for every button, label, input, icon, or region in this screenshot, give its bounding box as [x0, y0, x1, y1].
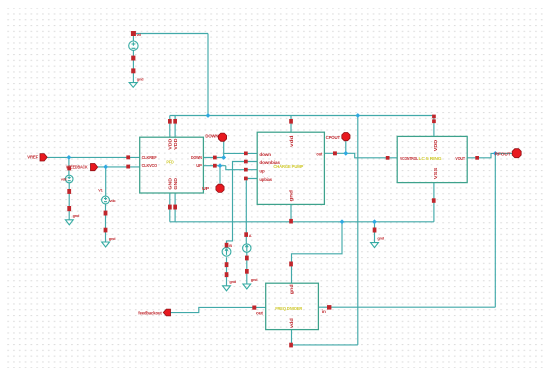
svg-text:gnd: gnd [137, 76, 144, 81]
wire PFD DOWN output [203, 157, 223, 159]
label PFD VDD rotated left [167, 138, 172, 150]
svg-text:gnd: gnd [109, 236, 116, 241]
pin square VCO VSS [432, 198, 436, 203]
junction node VDD corner x=208 [206, 113, 211, 118]
ground symbol below VREF source [65, 220, 73, 225]
svg-text:DOWN: DOWN [205, 134, 219, 139]
wire down to charge pump input y=153.4 [224, 152, 258, 154]
label VFEEDBACK [66, 165, 88, 170]
label CP gnd rotated [289, 190, 294, 202]
pin square VREF gnd [67, 206, 71, 211]
label divider in [322, 309, 326, 314]
ground symbol below VFEEDBACK source [102, 242, 110, 247]
svg-text:LC 5 RING: LC 5 RING [419, 156, 443, 161]
label divider out [256, 311, 263, 316]
wire UP pin stub vertical [219, 166, 221, 184]
label CPOUT pin [326, 135, 341, 140]
label CHARGE PUMP cell name [273, 164, 303, 169]
pin square PFD DOWN [213, 156, 217, 160]
svg-text:A: A [249, 233, 252, 238]
svg-text:VOUT: VOUT [455, 156, 465, 161]
pin square divider vdd bottom [289, 343, 293, 348]
wire VDD rail horizontal y=115.5 [170, 115, 434, 117]
label divider gnd rotated top [289, 284, 294, 294]
label PFD GND rotated left [167, 177, 172, 189]
pin square CP down [244, 152, 248, 156]
pin square VCO VCONTROL [386, 156, 390, 160]
label gnd below VFEEDBACK source [109, 236, 116, 241]
svg-text:CPOUT: CPOUT [326, 135, 341, 140]
pin square VCO VDD lower [432, 119, 436, 123]
label gnd below upbias source [251, 277, 258, 282]
svg-text:vdc: vdc [61, 177, 68, 182]
pin square VREF source plus [67, 166, 71, 170]
pin VFEEDBACK input arrow [91, 164, 98, 171]
pin square divider in [327, 305, 331, 310]
junction node CPOUT [343, 151, 348, 156]
pin square VFEEDBACK source minus [104, 211, 108, 216]
pin square PFD GND right [173, 205, 177, 210]
label PFD UP inside [196, 163, 202, 168]
wire VCO VSS to gnd rail [433, 183, 435, 222]
junction node RFOUT tap [493, 151, 498, 156]
svg-text:VREF: VREF [27, 154, 38, 159]
wire charge-pump out to CPOUT node [324, 152, 345, 154]
label CP upbias [259, 177, 272, 182]
pin square VCO VOUT [475, 156, 479, 160]
label VCONTROL [400, 156, 418, 161]
label VCO VSS rotated [433, 168, 438, 180]
wire gnd symbol drop at x=374.5 [374, 222, 376, 243]
pin square VCO VDD upper [432, 115, 436, 119]
label FREQ DIVIDER cell name [275, 306, 303, 311]
label divider vdd rotated bottom [289, 318, 294, 328]
svg-text:RFOUT: RFOUT [495, 151, 511, 156]
label CP down [259, 152, 271, 157]
ground symbol below V0 [129, 83, 137, 88]
label UP pin [202, 186, 209, 191]
svg-text:GND: GND [173, 177, 178, 189]
pin square downbias gnd [225, 272, 229, 277]
svg-text:GND: GND [167, 177, 172, 189]
svg-text:gnd: gnd [229, 279, 236, 284]
wire VREF net horizontal [47, 156, 140, 158]
wire PFD UP output [203, 165, 225, 167]
svg-text:down: down [259, 152, 271, 157]
label PFD VDD rotated right [173, 138, 178, 150]
wire charge-pump gnd stub [290, 204, 292, 221]
label gnd at rail drop [377, 235, 384, 240]
wire VOUT vertical feedback x=495.3 [494, 153, 496, 307]
label VCO VDD rotated [433, 139, 438, 151]
wire downbias net [227, 162, 258, 286]
wire charge-pump vdd stub [290, 116, 292, 133]
label PFD cell name [166, 159, 174, 164]
wire VDD vertical drop at x=208 [207, 34, 209, 116]
label CP up [259, 168, 264, 173]
label DOWN pin [205, 134, 219, 139]
svg-text:gnd: gnd [251, 277, 258, 282]
pin square VFEEDBACK gnd [104, 228, 108, 233]
pin square PFD VDD left [168, 119, 172, 124]
pin square PFD GND left [168, 205, 172, 210]
junction node VREF tap [66, 155, 71, 160]
svg-text:CLKREF: CLKREF [142, 155, 157, 160]
pin square upbias source minus [245, 256, 249, 261]
pin square V0 plus terminal [131, 31, 136, 36]
voltage source on VFEEDBACK net [102, 196, 110, 204]
label LC 5 RING cell name [419, 156, 443, 161]
svg-text:VDD: VDD [167, 138, 172, 150]
label PFD CLKREF [142, 155, 157, 160]
current source downbias [222, 247, 231, 256]
label PFD GND rotated right [173, 177, 178, 189]
svg-text:CHARGE PUMP: CHARGE PUMP [273, 164, 303, 169]
wire PFD VDD pin stubs [170, 116, 175, 138]
junction node gnd rail divider tap [340, 219, 345, 224]
pin RFOUT octagon [512, 149, 521, 158]
block FREQ DIVIDER box [266, 283, 319, 329]
label V1 designator [98, 187, 103, 192]
wire VREF source drop [68, 157, 70, 219]
wire feedbackout net [171, 307, 266, 312]
svg-text:B: B [229, 243, 232, 248]
pin square divider out [252, 306, 256, 310]
svg-text:FREQ DIVIDER: FREQ DIVIDER [275, 306, 303, 311]
label gnd below VREF source [73, 213, 80, 218]
wire VDD long vertical to divider x=357.8 [357, 116, 359, 345]
junction node DOWN [221, 155, 226, 160]
label CP out [316, 152, 322, 157]
svg-text:up: up [259, 168, 264, 173]
label PFD DOWN inside [191, 155, 202, 160]
pin square CP gnd [289, 219, 293, 224]
label vdc VFEEDBACK source [109, 198, 116, 203]
pin feedbackout arrow [163, 309, 170, 316]
pin square CP upbias [244, 177, 248, 181]
label VOUT [455, 156, 465, 161]
pin DOWN octagon [218, 133, 226, 141]
svg-text:gnd: gnd [289, 190, 294, 202]
junction node gnd rail symbol tap [372, 219, 377, 224]
current source upbias [243, 244, 251, 252]
wire PFD GND pin stubs [170, 193, 175, 222]
wire divider vdd bottom to x=357.8 [292, 330, 358, 345]
label RFOUT pin [495, 151, 511, 156]
wire up jog to charge pump input y=169.7 [226, 166, 257, 170]
junction node VFEEDBACK tap [103, 164, 108, 169]
pin square CP up [244, 168, 248, 172]
label VREF [27, 154, 38, 159]
ground symbol below downbias source [223, 286, 231, 291]
wire CPOUT pin stub [345, 141, 347, 154]
wire V0 source stubs [132, 36, 134, 83]
pin square PFD UP [213, 164, 217, 168]
pin square V0 gnd terminal [131, 68, 135, 73]
wire VCO VDD stub x=433.9 [433, 116, 435, 137]
pin square downbias source top [225, 243, 229, 248]
block VCO LC 5 RING box [397, 136, 467, 182]
pin square V0 minus terminal [131, 56, 135, 61]
svg-text:VDD: VDD [173, 138, 178, 150]
label V0 designator VREF source [61, 177, 68, 182]
label A designator upbias source [249, 233, 252, 238]
pin square upbias gnd [245, 269, 249, 274]
wire VDD top horizontal from V0 source to corner [133, 33, 208, 35]
ground symbol below upbias source [243, 284, 251, 289]
pin square PFD CLKVCO [126, 165, 130, 169]
label CP vdd rotated [289, 135, 294, 147]
svg-text:gnd: gnd [289, 284, 294, 294]
voltage source V0 top-left [129, 41, 138, 50]
ground symbol on gnd rail x=374.5 [371, 243, 379, 248]
label PFD CLKVCO [142, 163, 158, 168]
svg-text:vdd: vdd [289, 135, 294, 147]
pin square CP vdd [289, 119, 293, 124]
label gnd below downbias source [229, 279, 236, 284]
pin square downbias source minus [225, 262, 229, 267]
wire upbias net [246, 179, 257, 285]
svg-text:CLKVCO: CLKVCO [142, 163, 158, 168]
svg-text:feedbackout: feedbackout [138, 311, 162, 316]
svg-text:DOWN: DOWN [191, 155, 202, 160]
pin UP octagon [216, 184, 224, 192]
svg-text:UP: UP [202, 186, 209, 191]
label feedbackout [138, 311, 162, 316]
pin square gnd drop on rail [373, 228, 377, 233]
svg-text:gnd: gnd [73, 213, 80, 218]
svg-text:VFEEDBACK: VFEEDBACK [66, 165, 88, 170]
label B designator downbias source [229, 243, 232, 248]
svg-text:VDD: VDD [433, 139, 438, 151]
junction node VDD divider tap x=357.8 [355, 113, 360, 118]
wire VCO VOUT output [467, 153, 512, 157]
wire VFEEDBACK source drop [105, 167, 107, 242]
pin CPOUT octagon [342, 133, 350, 141]
svg-text:UP: UP [196, 163, 202, 168]
pin VREF input arrow [40, 154, 47, 161]
label CP downbias [259, 160, 280, 165]
svg-text:vdc: vdc [109, 198, 116, 203]
label V0 net stub [137, 32, 142, 37]
junction node UP [218, 163, 223, 168]
label gnd below V0 [137, 76, 144, 81]
voltage source on VREF net [65, 175, 73, 183]
pin square CP downbias [244, 160, 248, 164]
svg-text:upbias: upbias [259, 177, 272, 182]
block CHARGE PUMP box [257, 132, 324, 204]
pin square PFD CLKREF [126, 155, 130, 159]
svg-text:gnd: gnd [377, 235, 384, 240]
wire VFEEDBACK net horizontal [98, 166, 140, 168]
wire CPOUT to VCO VCONTROL [346, 153, 397, 158]
svg-text:PFD: PFD [166, 159, 174, 164]
block PFD box [140, 137, 204, 193]
svg-text:vdd: vdd [289, 318, 294, 328]
svg-text:VCONTROL: VCONTROL [400, 156, 418, 161]
pin square PFD VDD right [173, 119, 177, 124]
svg-text:out: out [256, 311, 263, 316]
wire DOWN pin stub vertical [223, 140, 225, 157]
wire gnd to divider top pin [292, 222, 343, 283]
pin square VREF source minus [67, 189, 71, 194]
pin square CP out [333, 151, 337, 155]
svg-text:in: in [322, 309, 326, 314]
wire divider input horizontal y=307.2 [318, 306, 495, 308]
pin square upbias source top [244, 232, 248, 237]
wire GND rail y=221.8 [170, 221, 434, 223]
pin square divider gnd top [289, 262, 293, 267]
svg-text:VSS: VSS [433, 168, 438, 180]
svg-text:out: out [316, 152, 322, 157]
